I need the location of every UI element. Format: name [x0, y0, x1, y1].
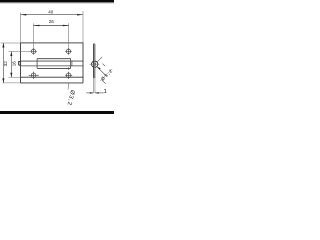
hole H4 bottom-right: [65, 72, 72, 79]
dimension 16: top arrow: [10, 52, 12, 57]
knuckle pill top line: [21, 60, 83, 62]
knuckle middle segment top edge: [37, 58, 71, 60]
dimension 40: extension line right: [82, 11, 84, 43]
roll diameter leader line: [97, 67, 106, 76]
side view: knuckle roll outer circle: [92, 61, 98, 67]
dimension 40: left arrow: [21, 14, 27, 16]
dimension 26: left arrow: [34, 25, 40, 27]
dimension 32: top arrow: [2, 43, 4, 48]
knuckle pill left rounded end: [19, 61, 21, 66]
knuckle pill bottom line: [21, 65, 83, 67]
hole H4 top tick through knuckle line: [68, 67, 70, 69]
dimension 32: dimension line: [2, 43, 4, 83]
leaf outline (plan view): [21, 43, 84, 77]
pin end box: [19, 61, 21, 65]
svg-text:16: 16: [12, 61, 17, 67]
roll diameter extension diagonal upper: [97, 57, 102, 62]
bottom border rule: [0, 111, 114, 114]
roll diameter dimension line (45 deg): [100, 69, 112, 81]
svg-text:32: 32: [3, 61, 8, 67]
dimension 40: extension line left: [20, 13, 22, 43]
edge view band bottom edge: [21, 82, 84, 84]
svg-text:40: 40: [48, 9, 54, 14]
dimension 26: dimension line: [34, 25, 69, 27]
dimension 32: bottom arrow: [2, 78, 4, 83]
side view: leaf strip left edge: [92, 44, 94, 78]
diameter extension tick: [103, 64, 105, 66]
knuckle middle segment bottom edge: [37, 67, 71, 69]
side view: strip rounded top cap: [93, 43, 94, 46]
side view: vertical centerline: [94, 60, 96, 69]
hole diameter leader: [67, 83, 70, 90]
thickness dim extension line left: [93, 78, 95, 93]
dimension 26: extension line left (to hole H1): [33, 23, 35, 48]
side view: strip bottom cap: [93, 77, 94, 79]
thickness dim line left segment: [86, 92, 93, 94]
knuckle right pill start cap: [71, 61, 73, 67]
diagonal tick below roll text: [102, 80, 106, 84]
dimension 26: extension line right (to hole H2): [68, 23, 70, 48]
edge view band right end: [82, 77, 84, 83]
edge view band left end: [20, 77, 22, 83]
side view: pin inner circle: [94, 63, 96, 65]
dimension 16: dimension line: [10, 52, 12, 78]
thickness dim extension line right: [94, 78, 96, 93]
svg-text:26: 26: [49, 19, 55, 24]
thickness dim right arrow: [95, 92, 99, 94]
svg-text:1: 1: [104, 89, 107, 95]
edge view band bottom extension line (left, to dim 32): [3, 82, 21, 84]
hole H1 top-left: [30, 48, 37, 55]
roll diameter leader arrow: [97, 67, 101, 70]
knuckle middle segment left cap: [36, 59, 38, 69]
dimension 32: top extension line: [1, 42, 21, 44]
dimension 26: right arrow: [63, 25, 69, 27]
side view: leaf strip right edge: [94, 44, 96, 78]
dimension 16: bottom extension line (leaf bottom edge extended): [9, 76, 21, 78]
top border rule: [0, 0, 114, 2]
thickness dim left arrow: [90, 92, 94, 94]
thickness dim line right segment: [95, 92, 104, 94]
hole H3 bottom-left: [29, 72, 39, 79]
knuckle middle segment right cap: [70, 59, 72, 69]
dimension 40: right arrow: [77, 14, 83, 16]
background: [0, 0, 114, 114]
dimension 16: bottom arrow: [10, 73, 12, 78]
dimension 16: top extension line (center line of H1 extended): [9, 51, 31, 53]
side view: horizontal centerline: [90, 63, 100, 65]
hole H2 top-right: [65, 48, 72, 55]
dimension 40: dimension line: [21, 14, 84, 16]
